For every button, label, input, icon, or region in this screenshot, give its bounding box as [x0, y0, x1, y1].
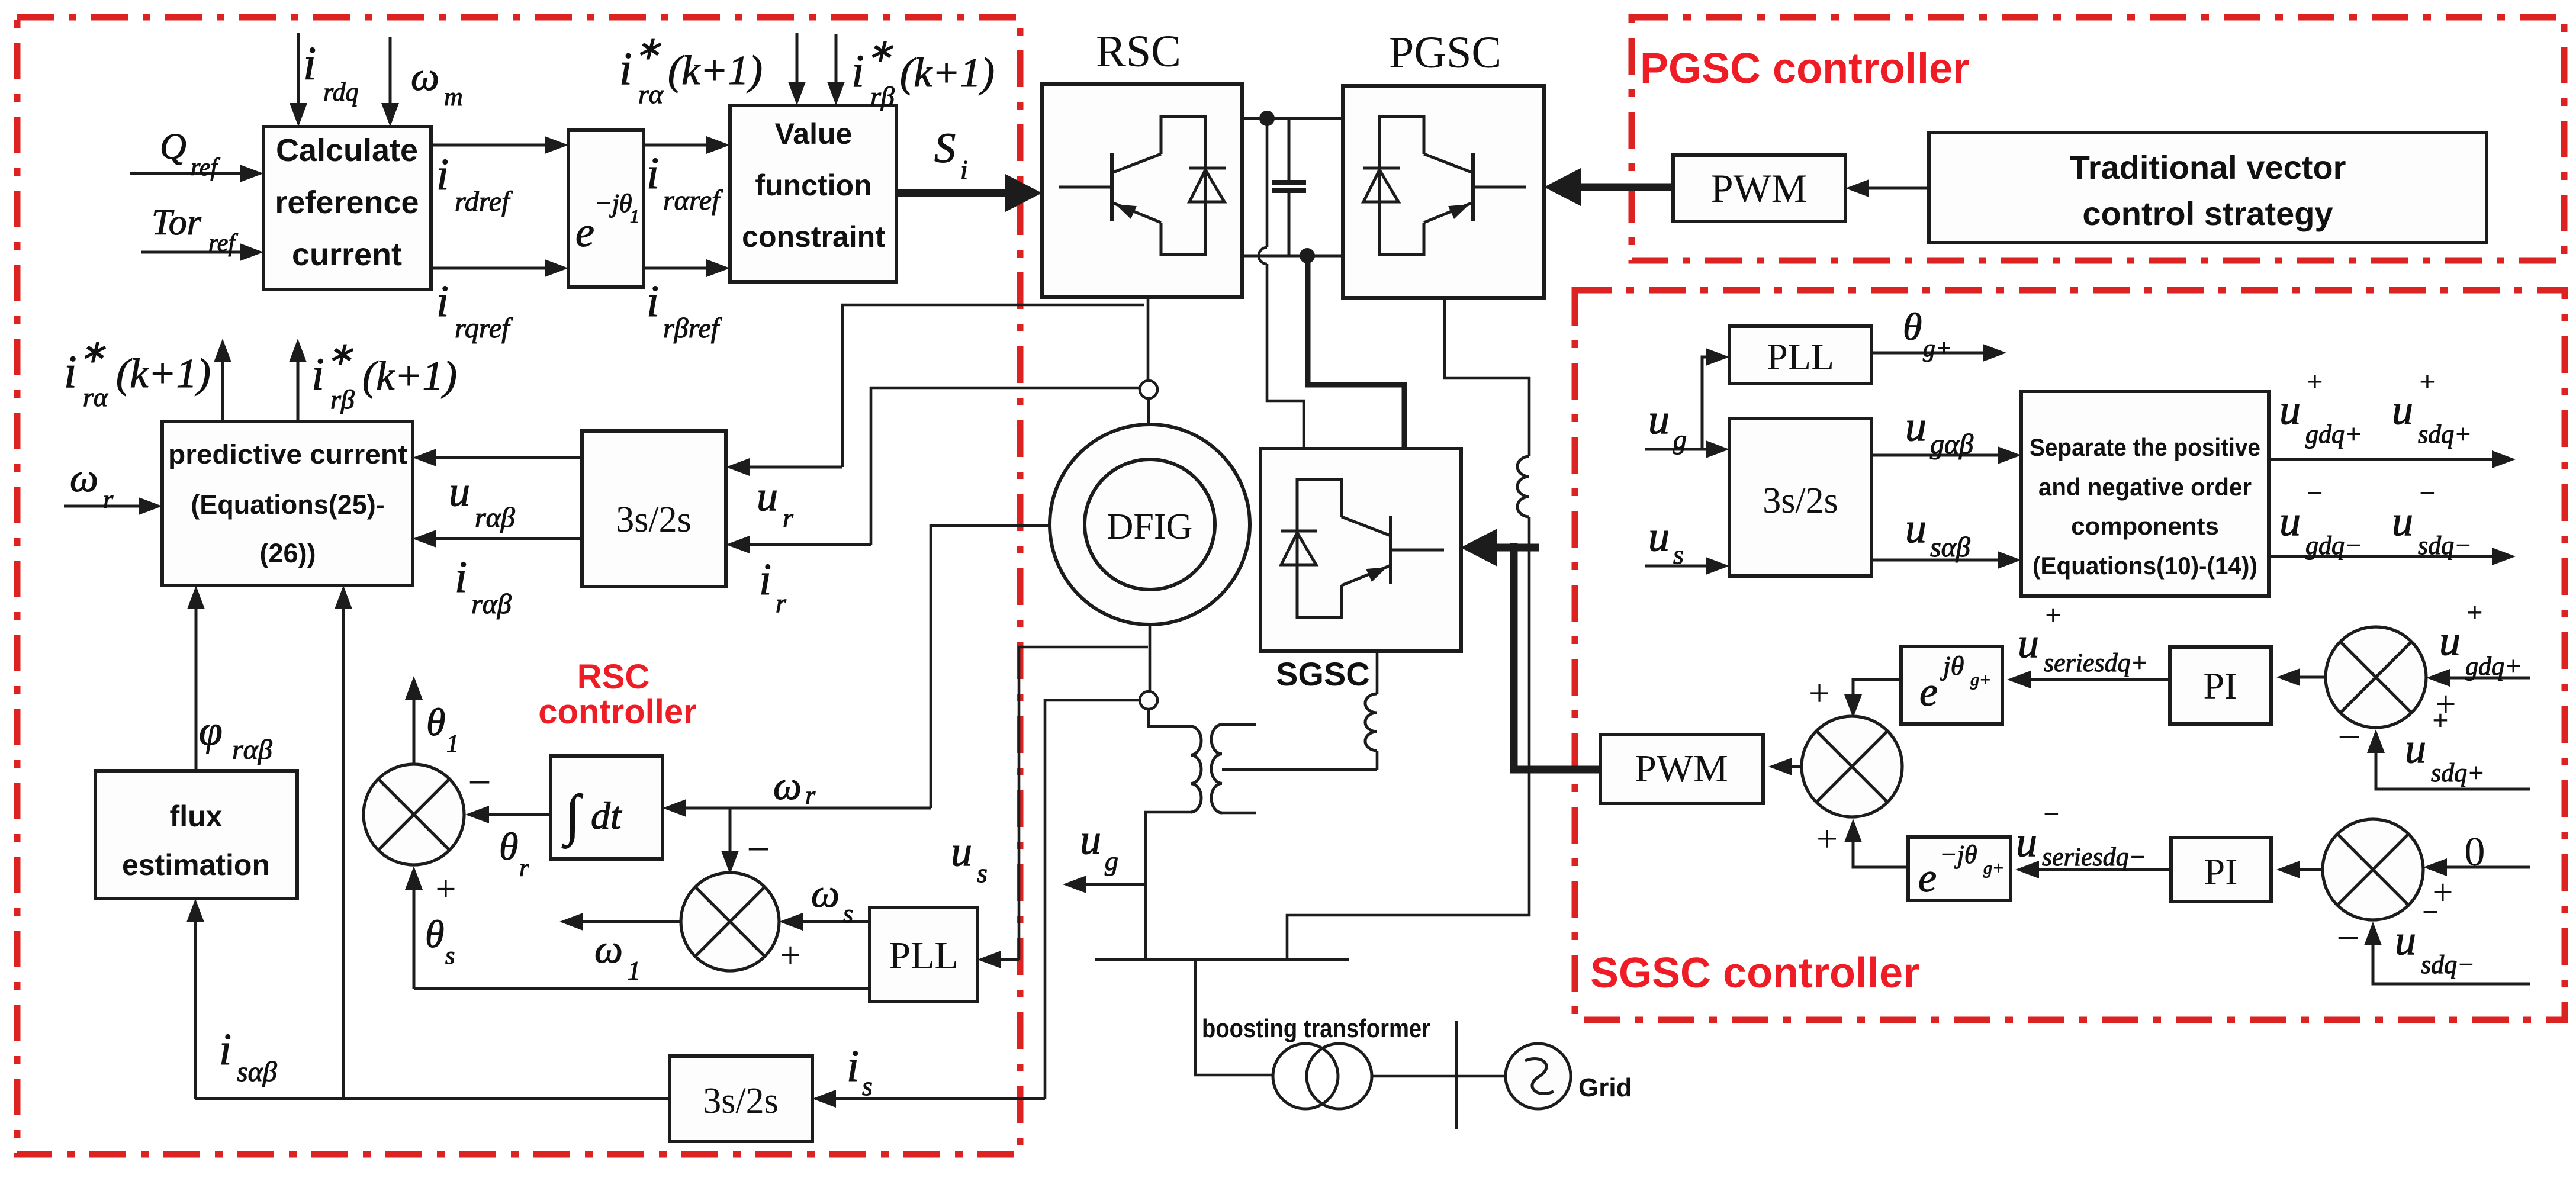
svg-text:∗: ∗ [79, 334, 106, 369]
svg-text:Grid: Grid [1578, 1073, 1632, 1102]
svg-text:jθ: jθ [1940, 651, 1964, 681]
svg-text:s: s [843, 899, 853, 928]
svg-text:e: e [1919, 670, 1938, 715]
svg-text:θ: θ [499, 825, 518, 868]
svg-text:i: i [759, 555, 771, 604]
svg-text:sαβ: sαβ [1930, 532, 1970, 563]
wire u-_gdq- u-_sdq- output arrow [2269, 555, 2503, 558]
svg-text:flux: flux [170, 800, 223, 833]
svg-text:u: u [2279, 386, 2301, 433]
svg-text:rαβ: rαβ [475, 502, 515, 533]
wire phi_rab arrow flux estimation to predictive block [195, 598, 198, 771]
svg-text:−: − [2305, 478, 2324, 508]
wire thick PWM (SGSC controller) to series branch [1514, 543, 1600, 770]
wire u_g arrow into 3s/2s grid transform [1645, 448, 1716, 451]
wire u+_gdq+ u+_sdq+ output arrow [2269, 458, 2503, 461]
wire i*_ra(k+1) arrow into Value block top [796, 33, 799, 92]
svg-text:u: u [1648, 513, 1670, 560]
svg-text:u: u [2392, 386, 2413, 433]
svg-text:θ: θ [426, 701, 445, 744]
svg-text:ω: ω [773, 763, 802, 808]
wire i*_rb(k+1) output arrow up from predictive block [297, 352, 300, 421]
svg-text:sdq+: sdq+ [2418, 420, 2472, 449]
svg-text:r: r [519, 855, 529, 882]
svg-text:sαβ: sαβ [237, 1056, 277, 1087]
wire omega_s arrow PLL to omega junction [792, 920, 870, 923]
svg-text:u: u [1905, 403, 1927, 450]
svg-text:−: − [2421, 897, 2439, 927]
svg-text:rβ: rβ [870, 81, 895, 111]
wire thick arrow into SGSC converter right side [1481, 544, 1539, 552]
svg-text:r: r [776, 588, 787, 618]
PGSC controller dashed boundary box [1632, 17, 2564, 260]
block SGSC converter [1260, 449, 1461, 651]
wire i_rdq input arrow into Calculate block [297, 33, 300, 114]
wire transformer to grid bar [1372, 1075, 1506, 1078]
svg-text:s: s [977, 858, 988, 888]
svg-text:control strategy: control strategy [2082, 195, 2333, 232]
svg-text:u: u [1080, 816, 1101, 863]
svg-text:sdq−: sdq− [2421, 950, 2475, 979]
svg-text:rαref: rαref [663, 185, 723, 216]
svg-text:i: i [851, 45, 864, 96]
wire DC-link bottom tap down to SGSC converter [1308, 259, 1404, 449]
wire i_s tap from stator node [1045, 700, 1140, 1099]
svg-text:0: 0 [2465, 829, 2485, 875]
wire theta_s horizontal from PLL [414, 987, 870, 990]
wire theta_s arrow up into theta junction [413, 879, 416, 989]
wire primary winding to grid bus [1146, 812, 1191, 960]
svg-text:−: − [2337, 714, 2360, 760]
node rotor connection (open circle) [1140, 381, 1157, 398]
source Grid (circle with sine) [1506, 1044, 1571, 1109]
wire i_sab horizontal from 3s/2s output [195, 1097, 670, 1100]
svg-text:−: − [747, 827, 770, 873]
svg-text:Q: Q [160, 127, 186, 167]
svg-text:φ: φ [199, 707, 223, 754]
wire u_sab arrow 3s/2s to Separate block [1871, 559, 2008, 562]
svg-text:i: i [311, 348, 324, 400]
wire u_s arrow into PLL [990, 958, 1019, 961]
wire u_s tap from stator wire [1019, 647, 1148, 960]
block Value function constraint [730, 105, 896, 282]
block 3s/2s rotor transform [582, 431, 726, 587]
wire i_sab arrow up into predictive block [342, 598, 345, 1099]
wire theta1 output arrow up [413, 689, 416, 763]
block e^-j-theta-g+ rotation [1908, 837, 2011, 900]
svg-text:(k+1): (k+1) [116, 351, 211, 397]
wire Tor_ref input arrow [141, 251, 250, 254]
svg-text:3s/2s: 3s/2s [703, 1081, 778, 1121]
multiplier junction negative sequence (circle with X) [2323, 819, 2423, 920]
svg-text:RSC: RSC [577, 658, 649, 696]
wire inductor to grid-side junction [1287, 517, 1529, 960]
svg-text:3s/2s: 3s/2s [1763, 481, 1838, 521]
svg-text:PLL: PLL [889, 934, 958, 977]
svg-text:u: u [951, 828, 972, 875]
svg-text:s: s [862, 1071, 873, 1101]
svg-text:current: current [292, 237, 402, 272]
svg-text:constraint: constraint [742, 220, 885, 253]
svg-text:−jθ: −jθ [1940, 840, 1977, 869]
svg-text:1: 1 [628, 956, 641, 985]
svg-text:+: + [2044, 600, 2062, 630]
svg-text:(k+1): (k+1) [362, 353, 457, 399]
svg-text:gαβ: gαβ [1930, 429, 1973, 460]
wire secondary winding tap to SGSC coupling inductor [1222, 768, 1377, 771]
wire e^j-theta block down into summing junction [1853, 680, 1901, 705]
wire i_r arrow into 3s/2s [739, 543, 871, 546]
svg-text:reference: reference [275, 185, 419, 220]
wire bus down to boosting transformer [1195, 960, 1273, 1075]
svg-text:θ: θ [425, 913, 444, 956]
svg-text:(26)): (26)) [259, 538, 316, 568]
wire thin DC-link tap down to SGSC converter (with hop over bottom rail) [1259, 118, 1304, 449]
wire i*_rb(k+1) arrow into Value block top [835, 34, 838, 92]
inductor SGSC coupling [1365, 694, 1377, 751]
svg-text:+: + [1809, 672, 1830, 714]
wire omega_m input arrow into Calculate block [389, 37, 392, 114]
svg-text:g: g [1673, 424, 1687, 455]
junction dot DC bottom rail [1300, 248, 1315, 263]
svg-text:u: u [449, 468, 470, 515]
SGSC controller dashed boundary box [1575, 290, 2565, 1020]
svg-text:r: r [805, 781, 816, 810]
wire SGSC converter down to coupling inductor [1376, 651, 1379, 694]
svg-text:rdref: rdref [455, 186, 513, 217]
svg-text:components: components [2071, 512, 2219, 540]
svg-text:+: + [436, 869, 456, 909]
svg-text:ω: ω [811, 871, 840, 916]
svg-text:ref: ref [191, 154, 220, 181]
svg-text:rα: rα [638, 79, 664, 109]
wire i_rab arrow 3s/2s to predictive block [426, 537, 582, 540]
series transformer secondary winding [1211, 725, 1222, 813]
wire stator node down to series transformer primary [1149, 709, 1191, 726]
svg-text:(k+1): (k+1) [900, 50, 995, 96]
block flux estimation [95, 771, 297, 899]
svg-text:ref: ref [208, 230, 238, 257]
wire omega_1 output arrow left [573, 920, 681, 923]
block PWM (PGSC controller) [1673, 155, 1845, 221]
wire i_r tap from rotor node [871, 388, 1140, 545]
svg-text:gdq+: gdq+ [2305, 420, 2362, 449]
svg-text:u: u [2395, 916, 2416, 964]
svg-text:predictive current: predictive current [168, 439, 407, 469]
svg-text:s: s [445, 942, 455, 970]
svg-text:ω: ω [594, 926, 623, 971]
svg-text:g+: g+ [1983, 858, 2004, 878]
svg-text:S: S [934, 124, 956, 172]
svg-text:rβref: rβref [663, 313, 722, 344]
wire RSC converter to rotor node [1147, 297, 1150, 381]
svg-text:SGSC: SGSC [1276, 655, 1370, 693]
svg-text:1: 1 [630, 205, 639, 227]
svg-text:ω: ω [411, 54, 439, 99]
svg-text:(Equations(10)-(14)): (Equations(10)-(14)) [2033, 552, 2257, 580]
svg-text:(Equations(25)-: (Equations(25)- [191, 490, 385, 520]
wire zero reference arrow into negative multiplier [2436, 866, 2530, 869]
svg-text:rdq: rdq [323, 78, 359, 107]
block PI negative sequence [2171, 838, 2271, 902]
svg-text:sdq+: sdq+ [2431, 758, 2485, 787]
wire i_rdref arrow Calculate to e-block [431, 144, 555, 147]
svg-text:RSC: RSC [1096, 27, 1181, 76]
svg-text:Separate the positive: Separate the positive [2030, 433, 2260, 461]
svg-text:∫: ∫ [562, 783, 583, 849]
svg-text:i: i [647, 149, 659, 198]
svg-text:+: + [2431, 705, 2449, 735]
wire DFIG bottom to stator node [1149, 625, 1152, 691]
wire u_g arrow tap [1076, 883, 1146, 886]
svg-text:i: i [960, 155, 968, 185]
wire PGSC converter down to series inductor [1445, 298, 1529, 456]
svg-text:Traditional vector: Traditional vector [2070, 149, 2346, 186]
svg-text:PGSC controller: PGSC controller [1640, 45, 1969, 92]
block e^-j-theta1 transform [568, 130, 644, 287]
grid connection bar [1455, 1021, 1458, 1129]
svg-text:m: m [444, 82, 463, 111]
svg-text:i: i [436, 150, 449, 199]
wire u_r arrow into 3s/2s [739, 466, 842, 469]
wire DC link top rail [1242, 117, 1343, 120]
wire theta_g+ output arrow from PLL [1871, 352, 1993, 355]
IGBT with antiparallel diode inside RSC [1059, 117, 1226, 255]
node stator connection (open circle) [1140, 691, 1157, 709]
svg-text:r: r [103, 485, 114, 514]
svg-text:g: g [1105, 846, 1118, 876]
wire arrow Traditional vector block to PWM [1858, 187, 1929, 190]
svg-text:u: u [2392, 497, 2413, 545]
wire u+_seriesdq+ arrow PI to e^j-theta block [2020, 678, 2170, 681]
wire DC link bottom rail [1242, 255, 1343, 258]
IGBT with antiparallel diode inside PGSC [1363, 117, 1526, 255]
wire theta_r arrow integrator to theta junction [478, 813, 551, 816]
svg-text:+: + [2418, 366, 2436, 397]
svg-text:rαβ: rαβ [471, 588, 512, 620]
svg-text:rβ: rβ [330, 384, 355, 414]
wire u_g branch arrow into PLL [1702, 357, 1716, 449]
machine DFIG (double circle) [1050, 424, 1250, 625]
series transformer primary winding [1191, 726, 1201, 812]
svg-text:DFIG: DFIG [1107, 507, 1193, 547]
wire i_s arrow into 3s/2s block [825, 1097, 1045, 1100]
wire i_rqref arrow Calculate to e-block [431, 267, 555, 270]
svg-text:i: i [455, 552, 467, 602]
svg-text:boosting transformer: boosting transformer [1202, 1014, 1430, 1043]
block PGSC converter [1343, 86, 1544, 298]
svg-text:PI: PI [2204, 851, 2238, 893]
svg-text:Tor: Tor [152, 202, 202, 243]
svg-text:i: i [436, 276, 449, 326]
svg-text:PWM: PWM [1635, 747, 1728, 790]
wire Q_ref input arrow [130, 172, 250, 175]
block Calculate reference current [263, 127, 431, 289]
wire arrow summing junction to PWM SGSC [1781, 765, 1802, 768]
svg-text:u: u [2018, 619, 2039, 667]
block 3s/2s stator transform [670, 1056, 812, 1141]
svg-text:gdq+: gdq+ [2465, 652, 2522, 681]
svg-text:u: u [2279, 497, 2301, 545]
svg-text:(k+1): (k+1) [668, 48, 763, 94]
wire DFIG stator left tap [931, 526, 1050, 808]
wire secondary winding top stub [1222, 723, 1256, 726]
svg-text:+: + [2305, 366, 2324, 397]
svg-text:function: function [755, 169, 871, 202]
svg-text:PGSC: PGSC [1389, 28, 1501, 78]
svg-text:g+: g+ [1923, 335, 1952, 362]
wire S_i thick arrow Value block to RSC converter [896, 189, 1022, 197]
svg-text:SGSC controller: SGSC controller [1590, 950, 1919, 997]
svg-text:PI: PI [2204, 665, 2237, 707]
capacitor DC link [1272, 118, 1306, 256]
block 3s/2s grid transform [1729, 419, 1871, 576]
svg-text:θ: θ [1903, 305, 1922, 349]
wire u_gab arrow 3s/2s to Separate block [1871, 454, 2008, 457]
IGBT with antiparallel diode inside SGSC [1281, 479, 1444, 617]
svg-text:u: u [1648, 395, 1670, 443]
wire omega_r arrow into predictive block [64, 505, 149, 508]
svg-text:s: s [1673, 539, 1684, 569]
svg-text:∗: ∗ [867, 33, 893, 69]
block integrator dt [551, 756, 663, 859]
svg-text:+: + [780, 935, 801, 976]
svg-text:u: u [2016, 818, 2037, 865]
transformer boosting (two overlapping circles) [1273, 1044, 1338, 1109]
summing junction theta (circle with X) [364, 764, 464, 865]
svg-text:e: e [1918, 855, 1937, 901]
svg-text:+: + [1816, 817, 1838, 860]
wire arrow negative multiplier to PI [2289, 868, 2323, 871]
svg-text:e: e [575, 208, 594, 256]
RSC controller dashed boundary box [17, 17, 1020, 1154]
svg-text:i: i [647, 276, 659, 326]
svg-text:−: − [2336, 916, 2359, 961]
summing junction omega (circle with X) [681, 873, 779, 971]
block predictive current (Equations(25)-(26)) [162, 421, 413, 585]
block Separate the positive and negative order components [2021, 391, 2269, 596]
wire u_s arrow into 3s/2s grid transform [1645, 565, 1716, 568]
svg-text:seriesdq+: seriesdq+ [2044, 648, 2148, 677]
svg-text:u: u [757, 472, 778, 520]
wire u+_sdq+ feedback arrow up into positive multiplier [2376, 742, 2530, 789]
svg-text:i: i [219, 1025, 231, 1074]
block RSC converter [1042, 84, 1242, 297]
svg-text:dt: dt [591, 794, 622, 838]
block PWM (SGSC controller) [1600, 735, 1763, 803]
multiplier junction positive sequence (circle with X) [2326, 627, 2426, 728]
wire u-_sdq- feedback arrow up into negative multiplier [2373, 935, 2530, 984]
svg-text:g+: g+ [1970, 670, 1991, 690]
svg-text:r: r [783, 503, 794, 533]
svg-text:rαβ: rαβ [232, 734, 272, 765]
wire i_raref arrow e-block to Value block [644, 144, 717, 147]
wire e^-j-theta block up into summing junction [1853, 832, 1908, 867]
wire i*_ra(k+1) output arrow up from predictive block [221, 352, 224, 421]
svg-text:PWM: PWM [1711, 166, 1807, 211]
svg-text:i: i [303, 38, 316, 90]
svg-text:−: − [2418, 478, 2436, 508]
wire i_rbref arrow e-block to Value block [644, 267, 717, 270]
svg-text:1: 1 [446, 730, 459, 758]
svg-text:and negative order: and negative order [2038, 473, 2252, 501]
wire u-_seriesdq- arrow PI to e^-j-theta block [2028, 868, 2171, 871]
wire thick arrow PWM to PGSC converter [1564, 184, 1673, 191]
wire i_sab arrow into flux estimation [194, 912, 197, 1099]
summing junction SGSC output (circle with X) [1802, 716, 1902, 817]
block PLL (SGSC controller) [1729, 326, 1871, 384]
svg-text:PLL: PLL [1767, 336, 1834, 378]
svg-text:u: u [2405, 725, 2426, 772]
wire omega_r branch down into speed summing junction [729, 808, 732, 861]
wire coupling inductor to transformer tap [1376, 751, 1379, 770]
svg-text:−: − [2042, 799, 2060, 829]
wire u_r tap from rotor connection [842, 305, 1144, 467]
svg-text:i: i [64, 346, 77, 397]
svg-text:i: i [619, 43, 632, 94]
svg-text:gdq−: gdq− [2305, 531, 2362, 560]
svg-text:−: − [468, 760, 491, 806]
wire u_rab arrow 3s/2s to predictive block [426, 456, 582, 459]
svg-text:3s/2s: 3s/2s [616, 500, 691, 540]
svg-text:rα: rα [83, 382, 108, 412]
block PI positive sequence [2170, 647, 2271, 724]
block Traditional vector control strategy [1929, 133, 2487, 243]
svg-text:+: + [2465, 597, 2484, 627]
wire rotor node to DFIG [1147, 398, 1150, 424]
inductor PGSC output filter [1517, 456, 1529, 517]
svg-text:seriesdq−: seriesdq− [2042, 842, 2146, 871]
svg-text:∗: ∗ [635, 31, 661, 66]
block e^j-theta-g+ rotation [1901, 646, 2002, 724]
svg-text:Value: Value [775, 117, 853, 150]
wire omega_r measurement arrow into integrator [676, 807, 931, 810]
svg-text:sdq−: sdq− [2418, 531, 2472, 560]
svg-text:Calculate: Calculate [276, 133, 418, 168]
wire u+_gdq+ arrow into positive multiplier [2439, 677, 2530, 680]
block PLL (RSC controller) [870, 907, 977, 1002]
wire grid bus bar [1095, 958, 1349, 961]
svg-text:u: u [1905, 504, 1927, 552]
junction dot DC top rail [1259, 111, 1275, 126]
svg-text:−jθ: −jθ [594, 189, 632, 218]
svg-text:estimation: estimation [122, 848, 270, 881]
svg-text:ω: ω [70, 455, 98, 500]
svg-text:rqref: rqref [455, 313, 513, 344]
wire secondary winding bottom stub [1222, 812, 1256, 815]
svg-text:∗: ∗ [327, 336, 353, 372]
svg-text:i: i [847, 1041, 859, 1091]
wire arrow positive multiplier to PI [2289, 676, 2326, 679]
svg-text:controller: controller [538, 693, 697, 731]
svg-text:u: u [2439, 617, 2461, 664]
